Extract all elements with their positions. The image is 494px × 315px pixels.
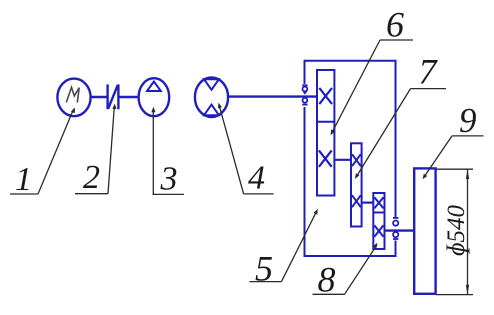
dimension line phi540 [467, 169, 469, 294]
svg-text:7: 7 [419, 52, 439, 92]
gear X lower shaft II [352, 195, 361, 207]
svg-text:2: 2 [83, 159, 100, 196]
leader label 9 [423, 101, 484, 179]
gearbox housing (item 5) [305, 60, 396, 257]
svg-text:1: 1 [15, 161, 32, 198]
wire: shaft coupling to pump [118, 96, 138, 98]
wire: output shaft to drum [384, 229, 414, 231]
svg-text:5: 5 [255, 249, 273, 289]
pump (item 3) [139, 78, 170, 116]
hydraulic motor (item 4) [195, 77, 228, 117]
wire: mesh link shaft II to shaft III [362, 202, 373, 204]
wire: shaft motor to coupling [91, 96, 108, 98]
drum (item 9) [414, 168, 435, 293]
svg-text:6: 6 [386, 5, 404, 45]
motor M1 (electric motor, item 1) [57, 79, 90, 117]
svg-text:ɸ540: ɸ540 [443, 204, 470, 256]
svg-text:8: 8 [318, 260, 336, 300]
gear X upper shaft III [374, 197, 383, 208]
bearing input upper [302, 85, 307, 94]
dimension extension line top [437, 168, 474, 170]
leader label 6 [331, 5, 413, 136]
gear X upper shaft II [352, 154, 361, 166]
svg-text:9: 9 [459, 101, 477, 140]
gear X upper shaft I [319, 88, 332, 104]
gear block shaft III (item 8 rectangle) [373, 193, 384, 249]
dimension extension line bottom [436, 294, 473, 296]
bearing output upper [393, 218, 398, 226]
leader label 7 [355, 52, 446, 179]
leader label 8 [313, 243, 378, 300]
wire: mesh link shaft I to shaft II [335, 159, 352, 161]
svg-text:3: 3 [160, 161, 178, 198]
gear X lower shaft I [319, 150, 332, 166]
leader label 1 [10, 107, 75, 198]
leader label 2 [75, 104, 117, 196]
coupling (item 2) [108, 84, 119, 109]
wire: shaft hydromotor to gearbox input gear [228, 95, 318, 97]
gear block shaft I (item 6 rectangle) [317, 70, 334, 196]
leader label 3 [151, 107, 184, 198]
dimension arrowheads [466, 169, 469, 294]
gear block shaft II (item 7 rectangle) [351, 143, 362, 226]
leader label 5 [250, 209, 318, 289]
gear X lower shaft III [374, 225, 383, 237]
bearing output lower [393, 232, 398, 239]
bearing input lower [302, 98, 307, 105]
leader label 4 [218, 103, 274, 197]
svg-text:4: 4 [248, 160, 265, 197]
